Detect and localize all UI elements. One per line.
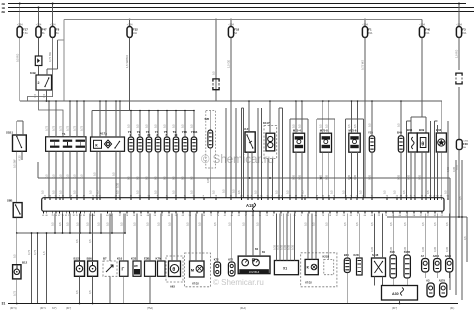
- svg-text:0,5: 0,5: [52, 174, 56, 178]
- svg-text:60: 60: [46, 215, 48, 217]
- svg-text:10: 10: [203, 215, 205, 217]
- svg-text:0,5: 0,5: [347, 124, 351, 128]
- svg-text:K4B: K4B: [30, 71, 36, 75]
- svg-text:0,5: 0,5: [232, 189, 236, 193]
- svg-text:S1B1: S1B1: [6, 131, 13, 135]
- svg-text:0,35: 0,35: [407, 174, 411, 180]
- svg-text:40: 40: [345, 195, 347, 197]
- svg-text:31*): 31*): [52, 307, 57, 310]
- svg-text:0,75: 0,75: [45, 125, 49, 131]
- svg-text:0,35: 0,35: [18, 155, 22, 161]
- svg-text:0,5: 0,5: [286, 190, 290, 194]
- svg-text:22: 22: [378, 215, 380, 217]
- svg-text:θ: θ: [421, 142, 424, 148]
- svg-text:0,5: 0,5: [59, 190, 63, 194]
- svg-text:F3: F3: [462, 28, 466, 32]
- svg-text:8: 8: [96, 195, 97, 197]
- svg-text:B39: B39: [419, 128, 425, 132]
- svg-text:1,5 GE: 1,5 GE: [227, 60, 231, 68]
- svg-text:WF: WF: [134, 264, 138, 268]
- svg-text:8B: 8B: [2, 10, 6, 14]
- svg-text:0,5: 0,5: [89, 190, 93, 194]
- svg-text:0,5: 0,5: [58, 222, 62, 226]
- svg-text:9: 9: [157, 195, 158, 197]
- svg-text:0,75: 0,75: [73, 125, 77, 131]
- svg-text:0,5: 0,5: [393, 190, 397, 194]
- svg-text:75: 75: [92, 195, 94, 197]
- svg-text:24: 24: [356, 195, 358, 197]
- svg-text:0,35: 0,35: [298, 174, 302, 180]
- svg-text:0,5: 0,5: [433, 222, 437, 226]
- svg-text:S348: S348: [372, 253, 379, 257]
- svg-text:1,5: 1,5: [42, 251, 46, 255]
- svg-text:0,5: 0,5: [370, 222, 374, 226]
- svg-text:38: 38: [301, 195, 303, 197]
- svg-text:71: 71: [184, 195, 186, 197]
- svg-text:A63: A63: [170, 285, 175, 289]
- svg-text:0,5: 0,5: [190, 124, 194, 128]
- svg-text:15A: 15A: [425, 32, 430, 35]
- svg-text:74: 74: [257, 195, 259, 197]
- svg-text:10A: 10A: [133, 32, 138, 35]
- svg-text:58: 58: [329, 215, 331, 217]
- svg-text:74: 74: [322, 215, 324, 217]
- svg-text:75: 75: [260, 195, 262, 197]
- svg-text:M75-4: M75-4: [293, 129, 301, 133]
- svg-text:31: 31: [2, 302, 6, 306]
- svg-text:44: 44: [168, 215, 170, 217]
- svg-text:0,35: 0,35: [433, 246, 437, 252]
- svg-text:AT D2: AT D2: [305, 282, 312, 285]
- svg-text:42: 42: [44, 195, 46, 197]
- svg-text:<2B4: <2B4: [362, 23, 368, 26]
- svg-text:69: 69: [70, 195, 72, 197]
- svg-text:0,5: 0,5: [402, 190, 406, 194]
- svg-text:0,35: 0,35: [324, 174, 328, 180]
- svg-text:0,5: 0,5: [163, 124, 167, 128]
- svg-text:0,5: 0,5: [190, 190, 194, 194]
- svg-text:0,5: 0,5: [237, 190, 241, 194]
- svg-text:44: 44: [106, 215, 108, 217]
- svg-text:19: 19: [316, 195, 318, 197]
- svg-text:41: 41: [42, 215, 44, 217]
- svg-text:18: 18: [295, 195, 297, 197]
- svg-text:45: 45: [238, 215, 240, 217]
- svg-text:0,5: 0,5: [426, 190, 430, 194]
- svg-text:0,5: 0,5: [168, 222, 172, 226]
- svg-text:0,5: 0,5: [146, 222, 150, 226]
- svg-text:0,75 WS: 0,75 WS: [361, 60, 365, 70]
- svg-text:66: 66: [147, 215, 149, 217]
- svg-text:0,5: 0,5: [136, 190, 140, 194]
- svg-text:AT D2: AT D2: [192, 282, 199, 285]
- svg-text:0,35: 0,35: [318, 174, 322, 180]
- svg-text:0,35: 0,35: [292, 174, 296, 180]
- svg-text:0,5: 0,5: [463, 236, 467, 240]
- svg-text:© Shemicar.ru: © Shemicar.ru: [213, 278, 264, 287]
- svg-text:0,5: 0,5: [172, 124, 176, 128]
- svg-text:0,35: 0,35: [403, 246, 407, 252]
- svg-text:0,5: 0,5: [112, 172, 116, 176]
- svg-text:0,35: 0,35: [418, 174, 422, 180]
- svg-text:55: 55: [447, 195, 449, 197]
- svg-text:0,5: 0,5: [154, 124, 158, 128]
- svg-text:20: 20: [175, 215, 177, 217]
- svg-text:75: 75: [52, 215, 54, 217]
- svg-text:15A: 15A: [368, 32, 373, 35]
- svg-text:0,5: 0,5: [324, 124, 328, 128]
- svg-text:0,5: 0,5: [75, 290, 79, 294]
- svg-text:0,5: 0,5: [353, 124, 357, 128]
- svg-text:6: 6: [281, 195, 282, 197]
- svg-text:29: 29: [240, 195, 242, 197]
- svg-text:0,5: 0,5: [222, 189, 226, 193]
- svg-text:0,5: 0,5: [12, 254, 16, 258]
- svg-text:47: 47: [83, 195, 85, 197]
- svg-text:0,35: 0,35: [421, 246, 425, 252]
- svg-text:0,5: 0,5: [154, 190, 158, 194]
- svg-text:0,5: 0,5: [256, 222, 260, 226]
- svg-text:0,5: 0,5: [96, 190, 100, 194]
- svg-text:<2B4: <2B4: [36, 23, 42, 26]
- svg-text:F30: F30: [463, 142, 468, 146]
- svg-text:51: 51: [55, 195, 57, 197]
- svg-text:0,5: 0,5: [458, 196, 462, 200]
- svg-text:8: 8: [425, 195, 426, 197]
- svg-text:72: 72: [350, 195, 352, 197]
- svg-text:(31*1): (31*1): [10, 307, 17, 310]
- svg-text:B7: B7: [103, 256, 107, 260]
- svg-text:S2B: S2B: [205, 118, 210, 121]
- svg-text:F18: F18: [234, 28, 239, 32]
- svg-text:© Shemicar.ru: © Shemicar.ru: [201, 154, 274, 166]
- svg-text:E3B: E3B: [144, 256, 149, 260]
- svg-text:0,5: 0,5: [298, 124, 302, 128]
- svg-text:0,5: 0,5: [145, 124, 149, 128]
- svg-text:A379: A379: [439, 278, 446, 282]
- svg-text:F40: F40: [425, 28, 430, 32]
- svg-text:Y26: Y26: [368, 130, 373, 134]
- svg-text:32: 32: [65, 215, 67, 217]
- svg-text:A229: A229: [445, 254, 452, 258]
- svg-text:28: 28: [115, 195, 117, 197]
- svg-text:27: 27: [433, 195, 435, 197]
- svg-text:0,5: 0,5: [324, 222, 328, 226]
- svg-text:79: 79: [385, 215, 387, 217]
- svg-text:0,75: 0,75: [27, 249, 31, 255]
- svg-text:A7: A7: [421, 254, 425, 258]
- svg-text:0,5: 0,5: [227, 222, 231, 226]
- svg-text:0,5: 0,5: [97, 222, 101, 226]
- svg-text:74: 74: [333, 195, 335, 197]
- svg-text:M75-6: M75-6: [349, 129, 357, 133]
- svg-text:13: 13: [76, 195, 78, 197]
- svg-text:<2B4: <2B4: [228, 23, 234, 26]
- svg-text:(31*): (31*): [392, 307, 397, 310]
- svg-text:A3: A3: [426, 278, 430, 282]
- svg-text:0,5: 0,5: [66, 222, 70, 226]
- svg-text:<2B4: <2B4: [127, 23, 133, 26]
- svg-text:73: 73: [421, 195, 423, 197]
- svg-text:0,5: 0,5: [213, 222, 217, 226]
- svg-text:0,5: 0,5: [242, 222, 246, 226]
- svg-text:0,5: 0,5: [275, 190, 279, 194]
- svg-text:0,5: 0,5: [368, 123, 372, 127]
- svg-text:5A: 5A: [42, 32, 45, 35]
- svg-text:0,5: 0,5: [33, 93, 37, 97]
- svg-text:60: 60: [364, 215, 366, 217]
- svg-text:16: 16: [230, 195, 232, 197]
- svg-text:0,35: 0,35: [370, 246, 374, 252]
- svg-text:63: 63: [182, 215, 184, 217]
- svg-text:0,75: 0,75: [33, 249, 37, 255]
- svg-text:0,35: 0,35: [368, 174, 372, 180]
- svg-text:0,5: 0,5: [80, 174, 84, 178]
- svg-text:5: 5: [119, 195, 120, 197]
- svg-text:F47: F47: [42, 28, 47, 32]
- svg-text:0,5: 0,5: [343, 222, 347, 226]
- svg-text:0,5: 0,5: [212, 71, 216, 75]
- svg-text:5A: 5A: [56, 32, 59, 35]
- svg-text:F8: F8: [56, 28, 60, 32]
- svg-text:Γ: Γ: [122, 267, 125, 272]
- svg-text:29: 29: [278, 195, 280, 197]
- svg-text:78: 78: [126, 215, 128, 217]
- svg-text:0,5: 0,5: [116, 190, 120, 194]
- svg-text:(31A): (31A): [240, 307, 246, 310]
- svg-text:72: 72: [289, 195, 291, 197]
- svg-text:0,5 SW: 0,5 SW: [12, 159, 16, 168]
- svg-text:7: 7: [59, 195, 60, 197]
- svg-text:<2B4: <2B4: [17, 23, 23, 26]
- svg-text:K72: K72: [228, 257, 233, 261]
- svg-text:70: 70: [322, 195, 324, 197]
- svg-text:0,5: 0,5: [106, 222, 110, 226]
- svg-text:20: 20: [49, 195, 51, 197]
- svg-text:B36: B36: [407, 128, 413, 132]
- svg-text:0,5: 0,5: [212, 190, 216, 194]
- svg-text:0,5: 0,5: [52, 190, 56, 194]
- svg-text:0,75: 0,75: [66, 125, 70, 131]
- svg-text:73: 73: [215, 195, 217, 197]
- svg-text:80: 80: [429, 195, 431, 197]
- svg-text:39: 39: [83, 215, 85, 217]
- svg-text:0,5: 0,5: [444, 190, 448, 194]
- svg-text:41: 41: [224, 215, 226, 217]
- svg-text:<2B4: <2B4: [419, 23, 425, 26]
- svg-text:0,5: 0,5: [330, 190, 334, 194]
- svg-text:(31*): (31*): [66, 307, 71, 310]
- svg-text:16: 16: [140, 215, 142, 217]
- svg-text:13: 13: [405, 195, 407, 197]
- svg-text:0,5: 0,5: [127, 124, 131, 128]
- svg-text:54: 54: [304, 195, 306, 197]
- svg-text:10: 10: [62, 195, 64, 197]
- svg-text:K7N: K7N: [156, 256, 162, 260]
- svg-text:0,5: 0,5: [88, 290, 92, 294]
- svg-text:47: 47: [58, 215, 60, 217]
- svg-text:0,5: 0,5: [421, 222, 425, 226]
- svg-text:B34: B34: [344, 253, 349, 257]
- svg-text:25: 25: [396, 195, 398, 197]
- svg-text:74: 74: [386, 195, 388, 197]
- svg-text:31: 31: [166, 195, 168, 197]
- svg-text:B33: B33: [436, 128, 442, 132]
- svg-text:5A: 5A: [234, 32, 237, 35]
- svg-text:X1: X1: [283, 267, 287, 271]
- svg-text:0,75: 0,75: [12, 290, 16, 296]
- svg-text:16: 16: [328, 195, 330, 197]
- svg-text:10: 10: [133, 215, 135, 217]
- svg-text:0,5: 0,5: [88, 239, 92, 243]
- svg-text:59: 59: [266, 215, 268, 217]
- svg-text:64: 64: [436, 195, 438, 197]
- svg-text:0,5: 0,5: [66, 174, 70, 178]
- svg-text:0,35: 0,35: [287, 244, 291, 250]
- svg-text:0,75: 0,75: [80, 125, 84, 131]
- svg-text:0,75: 0,75: [52, 125, 56, 131]
- svg-text:72: 72: [210, 215, 212, 217]
- svg-text:75: 75: [247, 195, 249, 197]
- svg-text:0,5: 0,5: [292, 124, 296, 128]
- svg-text:75: 75: [371, 195, 373, 197]
- svg-text:0,35: 0,35: [445, 246, 449, 252]
- svg-text:55: 55: [193, 195, 195, 197]
- svg-text:1,0 RO: 1,0 RO: [455, 50, 459, 58]
- svg-text:0,5: 0,5: [42, 93, 46, 97]
- svg-text:0,5: 0,5: [119, 222, 123, 226]
- svg-text:12: 12: [130, 195, 132, 197]
- svg-text:0,5: 0,5: [181, 124, 185, 128]
- svg-text:0,5: 0,5: [76, 222, 80, 226]
- svg-text:0,5: 0,5: [403, 222, 407, 226]
- svg-text:0,35: 0,35: [452, 166, 456, 172]
- svg-text:8: 8: [203, 195, 204, 197]
- svg-text:0,5: 0,5: [198, 222, 202, 226]
- svg-text:AYZ B1Z: AYZ B1Z: [249, 270, 260, 274]
- svg-text:F17: F17: [23, 28, 28, 32]
- svg-text:0,5: 0,5: [73, 174, 77, 178]
- svg-text:12: 12: [175, 195, 177, 197]
- svg-text:32: 32: [73, 215, 75, 217]
- svg-text:(75A): (75A): [147, 307, 153, 310]
- svg-text:37: 37: [336, 215, 338, 217]
- svg-text:K33: K33: [131, 256, 137, 260]
- svg-text:7: 7: [271, 195, 272, 197]
- svg-text:0,5: 0,5: [254, 190, 258, 194]
- svg-text:9: 9: [414, 195, 415, 197]
- svg-text:Y104: Y104: [191, 130, 198, 134]
- svg-text:0,5: 0,5: [318, 124, 322, 128]
- svg-text:0,5: 0,5: [186, 222, 190, 226]
- svg-text:0,5: 0,5: [51, 222, 55, 226]
- svg-text:0,35: 0,35: [347, 174, 351, 180]
- svg-text:0,5: 0,5: [157, 222, 161, 226]
- svg-text:9: 9: [301, 215, 302, 217]
- svg-text:T1: T1: [62, 132, 66, 136]
- svg-text:K218: K218: [323, 255, 330, 259]
- svg-text:0,5: 0,5: [136, 124, 140, 128]
- svg-text:F1: F1: [368, 28, 372, 32]
- svg-text:0,5: 0,5: [59, 174, 63, 178]
- svg-text:<2B4: <2B4: [50, 23, 56, 26]
- svg-text:69: 69: [440, 195, 442, 197]
- svg-text:<2B4: <2B4: [456, 23, 462, 26]
- svg-text:11: 11: [76, 215, 78, 217]
- svg-text:45: 45: [350, 215, 352, 217]
- svg-text:M75-8: M75-8: [320, 129, 328, 133]
- svg-text:37: 37: [119, 215, 121, 217]
- svg-text:S8B: S8B: [7, 198, 12, 202]
- svg-text:0,5: 0,5: [397, 123, 401, 127]
- svg-text:A30: A30: [392, 292, 399, 296]
- svg-text:0,5: 0,5: [359, 190, 363, 194]
- svg-text:B56: B56: [87, 256, 93, 260]
- svg-text:46: 46: [371, 215, 373, 217]
- svg-text:0,5: 0,5: [312, 222, 316, 226]
- svg-text:0,5: 0,5: [73, 190, 77, 194]
- svg-text:54: 54: [148, 195, 150, 197]
- svg-text:0,5: 0,5: [45, 174, 49, 178]
- svg-text:48: 48: [400, 195, 402, 197]
- svg-text:14: 14: [362, 195, 364, 197]
- svg-text:54: 54: [154, 215, 156, 217]
- svg-text:B12: B12: [22, 261, 28, 265]
- svg-text:0,35: 0,35: [397, 174, 401, 180]
- svg-text:65: 65: [99, 195, 101, 197]
- svg-text:0,35: 0,35: [276, 244, 280, 250]
- svg-text:0,35: 0,35: [116, 182, 120, 188]
- svg-text:0,75: 0,75: [59, 125, 63, 131]
- svg-text:0,5 RO: 0,5 RO: [15, 54, 19, 62]
- svg-text:B45: B45: [397, 130, 403, 134]
- svg-text:9: 9: [273, 215, 274, 217]
- svg-text:71: 71: [410, 195, 412, 197]
- svg-text:θ: θ: [172, 267, 175, 273]
- svg-text:B123: B123: [74, 256, 81, 260]
- svg-text:0,35: 0,35: [446, 166, 450, 172]
- svg-text:0,5: 0,5: [172, 190, 176, 194]
- svg-text:0,35: 0,35: [283, 244, 287, 250]
- svg-text:0,75 SW: 0,75 SW: [48, 52, 52, 62]
- svg-text:0,35: 0,35: [290, 244, 294, 250]
- svg-text:15A: 15A: [462, 32, 467, 35]
- svg-text:0,5: 0,5: [383, 190, 387, 194]
- svg-text:50: 50: [343, 215, 345, 217]
- svg-text:0,5: 0,5: [41, 190, 45, 194]
- svg-text:0,5: 0,5: [301, 190, 305, 194]
- svg-text:0,5: 0,5: [342, 190, 346, 194]
- svg-text:0,5: 0,5: [304, 222, 308, 226]
- svg-text:A304: A304: [433, 254, 440, 258]
- svg-text:0,5: 0,5: [75, 239, 79, 243]
- svg-text:0,35: 0,35: [389, 246, 393, 252]
- svg-text:51: 51: [267, 195, 269, 197]
- svg-text:K10: K10: [117, 256, 123, 260]
- svg-text:56: 56: [139, 195, 141, 197]
- svg-text:Y16: Y16: [182, 130, 187, 134]
- svg-text:(31*1: (31*1: [40, 307, 46, 310]
- svg-text:2: 2: [38, 81, 40, 85]
- svg-text:8: 8: [251, 195, 252, 197]
- svg-text:7,5A: 7,5A: [23, 32, 28, 35]
- svg-text:(31): (31): [450, 307, 454, 310]
- svg-text:K117: K117: [263, 121, 270, 125]
- svg-text:0,5: 0,5: [389, 222, 393, 226]
- svg-text:0,5: 0,5: [133, 222, 137, 226]
- svg-text:64: 64: [93, 215, 95, 217]
- svg-text:0,35: 0,35: [353, 174, 357, 180]
